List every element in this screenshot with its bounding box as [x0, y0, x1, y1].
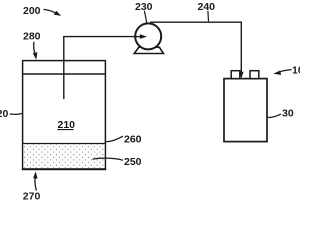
label 230 leader	[144, 11, 146, 23]
svg-text:270: 270	[23, 191, 41, 200]
flow arrow into cell	[239, 72, 244, 79]
svg-text:280: 280	[23, 31, 41, 43]
svg-text:100: 100	[292, 65, 300, 77]
label 100 arrow	[278, 70, 291, 73]
svg-text:240: 240	[198, 1, 216, 13]
pump U-230 circle	[135, 23, 161, 49]
label 260 leader	[105, 136, 123, 141]
pipe 240 horizontal	[150, 21, 242, 23]
flow arrow into pump	[134, 36, 140, 38]
svg-text:230: 230	[135, 1, 153, 13]
pipe 240 vertical drop	[240, 22, 242, 73]
pipe horizontal to pump	[63, 36, 141, 38]
dip tube / outlet pipe vertical	[63, 37, 65, 99]
tank lid line	[23, 73, 106, 75]
label 220 leader	[10, 113, 23, 114]
svg-text:220: 220	[0, 108, 8, 120]
label 270 arrow	[35, 178, 36, 191]
label 250 leader	[93, 158, 124, 160]
electrolyte layer 250 (stippled)	[23, 144, 104, 168]
pump base	[134, 47, 163, 53]
svg-text:30: 30	[282, 108, 294, 120]
cell 100 body	[224, 79, 267, 142]
svg-text:260: 260	[124, 133, 142, 145]
liquid surface line 260	[23, 143, 106, 145]
tank 220 outer wall	[23, 61, 106, 170]
svg-text:200: 200	[23, 5, 41, 17]
terminal tab left	[231, 71, 240, 79]
terminal tab right	[250, 71, 259, 79]
label 200 arrow	[44, 9, 56, 13]
label 280 arrow	[34, 42, 35, 54]
svg-text:250: 250	[124, 156, 142, 168]
tank bottom thick wall	[22, 168, 106, 170]
label 240 leader	[207, 11, 210, 22]
svg-text:210: 210	[58, 119, 76, 131]
label 30 leader	[267, 114, 281, 117]
